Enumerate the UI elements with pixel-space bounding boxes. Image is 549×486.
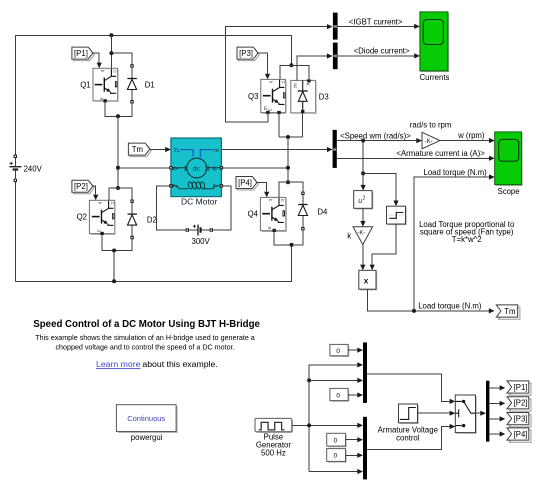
DC Motor block U1 <box>169 138 223 207</box>
svg-text:Q4: Q4 <box>248 210 259 219</box>
svg-text:control: control <box>396 434 420 443</box>
svg-text:T=k*w^2: T=k*w^2 <box>452 235 482 244</box>
svg-text:0: 0 <box>334 453 338 460</box>
wire relay to product <box>372 224 396 265</box>
wire mid-right leg <box>287 137 289 182</box>
svg-text:0: 0 <box>336 348 340 355</box>
svg-text:powergui: powergui <box>131 433 163 442</box>
svg-text:Continuous: Continuous <box>127 414 165 423</box>
wire feed to mux1 in3 <box>309 379 361 381</box>
gain rad/s to rpm <box>422 132 440 149</box>
wire to Q4 collector <box>279 182 288 197</box>
wire P1 to Q1 base <box>93 53 99 62</box>
transistor Q1 <box>80 68 118 102</box>
svg-text:Load torque (N.m): Load torque (N.m) <box>424 168 488 177</box>
node bottom rail junction <box>112 279 116 283</box>
diode D4 <box>298 192 328 231</box>
math function u^2 <box>354 191 374 210</box>
transistor Q4 <box>248 197 287 232</box>
wire field loop F- <box>213 186 232 230</box>
node Q1/D1 top junction <box>109 51 113 55</box>
svg-text:chopped voltage and to control: chopped voltage and to control the speed… <box>55 344 234 352</box>
bus selector bar (Diode current) <box>333 43 338 70</box>
diode D1 <box>127 64 154 103</box>
wire gain k to product <box>362 245 364 265</box>
wire C4 to mux2 <box>346 454 362 456</box>
node A+ branch <box>116 166 120 170</box>
svg-text:[P2]: [P2] <box>514 399 528 408</box>
powergui block <box>116 405 177 442</box>
diode D2 <box>128 200 157 240</box>
wire product to Tm goto <box>367 289 493 311</box>
wire demux to P3 goto <box>489 418 503 420</box>
node Q1/D1 bottom junction <box>116 114 120 118</box>
svg-text:[P1]: [P1] <box>514 383 528 392</box>
demux bar <box>486 381 489 442</box>
wire C2 to mux1 <box>348 394 361 396</box>
svg-text:[P4]: [P4] <box>238 178 252 187</box>
svg-text:[P3]: [P3] <box>514 414 528 423</box>
svg-text:<Speed wm (rad/s)>: <Speed wm (rad/s)> <box>340 131 411 140</box>
wire to Q2 collector <box>109 188 118 200</box>
svg-text:u: u <box>358 198 362 205</box>
wire feed to mux2 in4 <box>309 471 361 473</box>
node pulse feed in3 <box>307 378 311 382</box>
scope Scope <box>495 132 523 196</box>
wire into u2 <box>362 173 364 185</box>
svg-text:Learn more: Learn more <box>96 359 141 369</box>
svg-text:m: m <box>214 148 219 154</box>
wire Q1 emitter to bottom node <box>105 101 132 117</box>
wire field loop F+ <box>157 186 188 230</box>
node u2/relay branch <box>361 171 365 175</box>
wire armature current to Scope <box>337 157 493 159</box>
Goto tag Tm <box>496 305 520 319</box>
wire D3 m to Diode-current bus <box>297 56 331 80</box>
description annotation <box>35 334 255 352</box>
svg-text:dc: dc <box>193 165 200 172</box>
svg-text:Load torque (N.m): Load torque (N.m) <box>418 302 482 311</box>
label Armature Voltage control <box>378 426 438 443</box>
wire pulse feed vertical <box>309 365 361 472</box>
wire IGBT current to Currents scope <box>338 25 419 27</box>
svg-text:500 Hz: 500 Hz <box>261 449 286 458</box>
wire switch to demux <box>476 412 485 414</box>
armature voltage control block <box>399 404 419 424</box>
wire C1 to mux1 <box>348 349 361 351</box>
svg-text:Q3: Q3 <box>248 92 258 101</box>
label Pulse Generator 500 Hz <box>256 432 292 457</box>
svg-text:w (rpm): w (rpm) <box>457 131 485 140</box>
mux bar 1 <box>363 342 367 403</box>
svg-text:0: 0 <box>334 437 338 444</box>
relay block <box>387 206 407 225</box>
svg-text:TL: TL <box>173 148 180 154</box>
From tag [P4] <box>236 177 258 191</box>
gain k <box>347 227 372 245</box>
wire to D4 top <box>288 182 303 192</box>
svg-text:<Diode current>: <Diode current> <box>354 47 410 56</box>
wire load torque to Scope <box>414 177 493 311</box>
wire branch to relay <box>363 173 396 200</box>
constant 0 block C3 <box>327 433 347 447</box>
wire Q3 m to IGBT-current bus <box>226 27 331 123</box>
constant 0 block C4 <box>327 449 347 463</box>
scope Currents <box>420 12 450 82</box>
node load torque branch <box>412 309 416 313</box>
node top-rail/Q1 junction <box>109 33 113 37</box>
battery 300V <box>186 225 213 247</box>
wire speed to gain <box>337 140 417 142</box>
wire Diode current to Currents scope <box>338 55 419 57</box>
wire to Q3 collector <box>280 65 292 79</box>
wire P4 to Q4 base <box>257 183 267 192</box>
svg-text:240V: 240V <box>24 164 43 173</box>
transistor Q2 <box>77 200 115 235</box>
wire Q4 emitter to bottom node <box>274 230 303 244</box>
node pulse junction <box>307 423 311 427</box>
svg-text:Currents: Currents <box>420 73 450 82</box>
svg-text:k: k <box>347 231 351 240</box>
svg-text:Speed Control of a DC Motor Us: Speed Control of a DC Motor Using BJT H-… <box>33 319 260 330</box>
wire Q2 emitter to bottom node <box>102 234 132 251</box>
svg-text:300V: 300V <box>192 237 211 246</box>
node right-rail top junction <box>289 63 293 67</box>
svg-text:<Armature current ia (A)>: <Armature current ia (A)> <box>396 149 485 158</box>
wire AVC to switch in2 <box>418 412 454 414</box>
svg-text:rad/s to rpm: rad/s to rpm <box>410 121 452 130</box>
constant 0 block C1 <box>330 344 349 357</box>
node Q4/D4 top junction <box>286 180 290 184</box>
wire Q3 emitter / D3 anode to node <box>279 113 303 138</box>
svg-text:E: E <box>294 84 298 90</box>
wire speed branch down <box>362 141 364 174</box>
wire motor m to speed bus <box>221 149 331 151</box>
wire top rail <box>15 35 291 156</box>
pulse generator block <box>255 418 293 433</box>
wire left rail lower <box>14 180 16 281</box>
svg-text:D3: D3 <box>319 92 329 101</box>
svg-text:x: x <box>364 276 369 286</box>
Goto tag [P2] <box>507 397 531 411</box>
diode block D3 <box>291 79 329 113</box>
svg-text:D1: D1 <box>145 80 155 89</box>
constant 0 block C2 <box>330 388 349 401</box>
svg-text:A-: A- <box>213 166 218 172</box>
svg-text:[P4]: [P4] <box>514 430 528 439</box>
wire Q1 collector drop <box>110 35 112 68</box>
node A- junction <box>286 166 290 170</box>
svg-text:Q1: Q1 <box>80 80 90 89</box>
wire to bottom rail <box>113 251 115 282</box>
svg-text:about this example.: about this example. <box>142 359 217 369</box>
wire to D3 cathode <box>291 65 309 79</box>
Goto tag [P3] <box>507 413 531 427</box>
node Q2/D2 bottom junction <box>112 249 116 253</box>
transistor Q3 <box>248 79 286 114</box>
wire mid-left leg <box>117 116 119 188</box>
wire demux to P2 goto <box>489 402 503 404</box>
svg-text:[P3]: [P3] <box>239 49 253 58</box>
svg-text:[P1]: [P1] <box>74 49 88 58</box>
svg-text:-K-: -K- <box>425 139 433 145</box>
wire P2 to Q2 base <box>93 186 96 194</box>
svg-text:Q2: Q2 <box>77 213 87 222</box>
svg-text:Tm: Tm <box>132 145 143 154</box>
wire A+ to motor <box>118 167 171 169</box>
svg-text:D4: D4 <box>317 208 328 217</box>
wire mux1 to switch in1 <box>367 374 454 401</box>
Goto tag [P4] <box>507 428 531 442</box>
svg-text:Scope: Scope <box>498 187 520 196</box>
battery 240V <box>9 155 42 182</box>
svg-text:A+: A+ <box>172 166 178 172</box>
svg-text:<IGBT current>: <IGBT current> <box>349 17 403 26</box>
wire to D2 top <box>118 188 132 201</box>
wire gain to Scope <box>440 140 493 142</box>
From tag [P3] <box>237 47 259 61</box>
svg-text:-K-: -K- <box>357 231 365 237</box>
product block <box>359 270 377 290</box>
node Q4/D4 bottom junction <box>290 243 294 247</box>
svg-text:0: 0 <box>336 392 340 399</box>
svg-text:D2: D2 <box>147 215 157 224</box>
wire u2 to gain k <box>362 208 364 221</box>
svg-text:Tm: Tm <box>504 307 515 316</box>
From tag [P1] <box>72 47 94 61</box>
bus selector bar (speed) <box>333 130 337 168</box>
wire pulse gen to mux2 <box>292 424 362 426</box>
From tag Tm <box>128 143 151 157</box>
svg-text:2: 2 <box>363 196 366 202</box>
wire P3 to Q3 base <box>258 53 268 74</box>
wire C3 to mux2 <box>346 439 362 441</box>
svg-text:DC Motor: DC Motor <box>181 197 218 207</box>
wire mux2 to switch in3 <box>367 427 454 450</box>
svg-text:[P2]: [P2] <box>74 182 88 191</box>
From tag [P2] <box>72 180 94 194</box>
Goto tag [P1] <box>507 381 531 395</box>
bus selector bar (IGBT current) <box>333 13 338 40</box>
node Q3/D3 bottom junction <box>286 135 290 139</box>
mux bar 2 <box>363 417 367 480</box>
wire motor A- to right bridge <box>221 167 288 169</box>
wire demux to P4 goto <box>489 433 503 435</box>
node Q2/D2 top junction <box>116 186 120 190</box>
annotation load torque text <box>419 220 515 244</box>
wire Tm to motor TL <box>150 149 166 151</box>
wire demux to P1 goto <box>489 387 503 389</box>
svg-text:This example shows the simulat: This example shows the simulation of an … <box>35 334 255 342</box>
learn more annotation <box>96 359 218 369</box>
wire to D1 top <box>111 53 132 66</box>
wire bottom rail <box>15 245 291 281</box>
switch block <box>455 395 476 434</box>
node speed branch <box>361 139 365 143</box>
